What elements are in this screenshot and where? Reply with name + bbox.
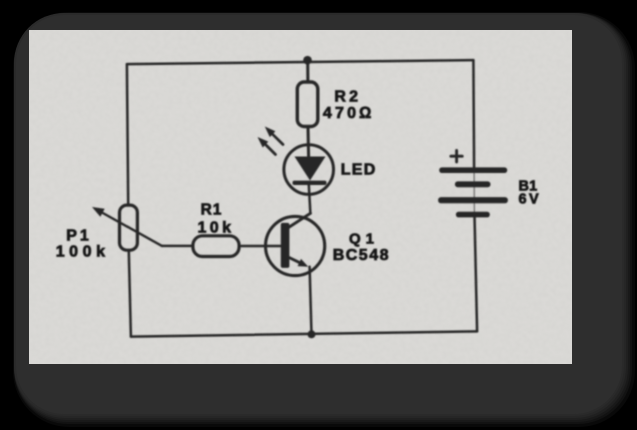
wire right rail upper [472,60,475,169]
node top junction [303,56,312,65]
battery B1 plate 1 long [439,167,507,173]
battery B1 plate 4 short [456,212,490,218]
wire right rail lower [475,216,478,332]
svg-text:P1: P1 [66,228,92,245]
battery B1 plate 3 long [438,197,508,203]
resistor R1 [193,236,239,257]
wire collector diagonal [289,213,311,227]
node bottom junction [308,330,316,338]
wire R2 to LED [307,128,311,157]
battery B1 plate 2 short [455,181,491,187]
potentiometer P1 wiper arrow [92,207,162,246]
svg-text:470Ω: 470Ω [323,105,375,122]
wire bottom rail [131,331,477,336]
svg-text:Q1: Q1 [349,231,379,248]
svg-text:6V: 6V [519,191,542,207]
wire top rail [127,60,474,64]
transistor Q1 emitter arrow [287,257,308,267]
svg-text:R2: R2 [334,89,361,106]
light arrow 2 [265,127,283,145]
wire top node to R2 [306,62,309,82]
svg-text:10k: 10k [198,220,235,237]
battery plus sign [451,151,462,162]
LED D1 circle [284,145,334,195]
resistor R2 [297,82,318,127]
transistor Q1 circle [266,216,325,275]
svg-text:100k: 100k [56,244,110,261]
wire left rail lower [129,252,131,337]
wire battery internal [473,169,475,216]
LED cathode bar [293,181,327,185]
svg-text:R1: R1 [201,202,223,219]
wire emitter to bottom [310,267,312,335]
light arrow 1 [258,137,276,155]
wire base [241,245,280,248]
wire LED to collector [309,185,311,214]
wire left rail upper [127,64,128,204]
LED anode triangle [295,157,326,181]
potentiometer P1 body [120,205,138,250]
wire R1 to wiper bend [162,245,192,248]
svg-text:LED: LED [341,162,377,179]
transistor Q1 base bar [281,223,290,268]
svg-text:BC548: BC548 [333,247,390,264]
